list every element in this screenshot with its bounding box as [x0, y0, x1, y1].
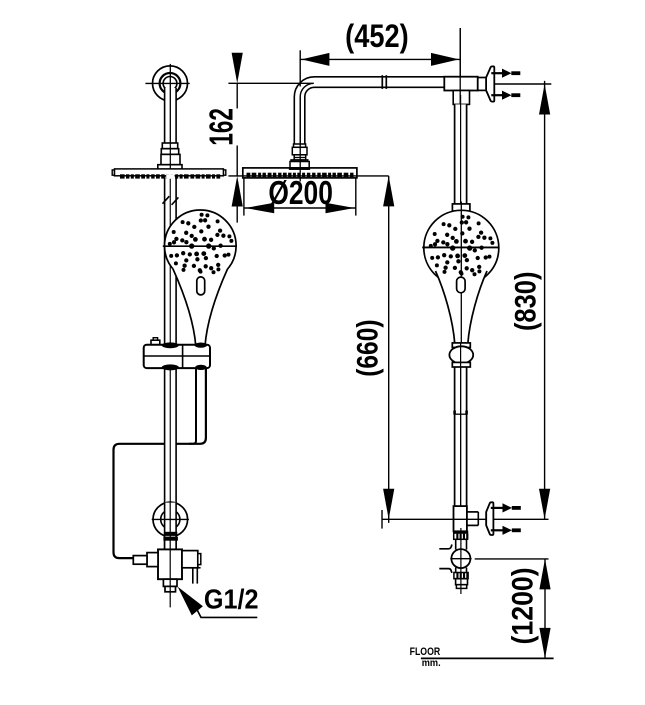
svg-text:(830): (830)	[509, 272, 542, 332]
svg-text:(1200): (1200)	[506, 567, 540, 644]
svg-text:mm.: mm.	[422, 657, 441, 668]
svg-text:G1/2: G1/2	[204, 583, 259, 615]
svg-text:(452): (452)	[345, 19, 408, 55]
svg-text:FLOOR: FLOOR	[410, 646, 441, 658]
svg-text:Ø200: Ø200	[268, 175, 333, 211]
svg-text:162: 162	[202, 108, 239, 145]
svg-text:(660): (660)	[350, 319, 384, 376]
